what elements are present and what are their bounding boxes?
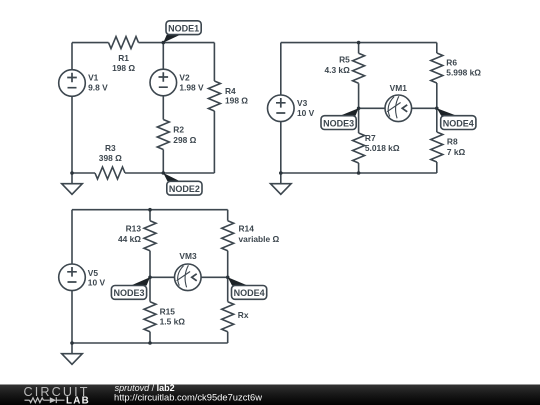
junction c2 top tee — [357, 41, 361, 45]
wire c1 top-right segment — [139, 42, 215, 44]
voltage source V3 — [268, 95, 315, 122]
wire c1 right column lower — [213, 111, 215, 173]
wire c3 bottom wire — [72, 342, 228, 344]
resistor Rx — [222, 302, 249, 332]
resistor R3 — [95, 143, 125, 179]
junction c3 node3 junction — [148, 276, 152, 280]
junction c3 top tee — [148, 208, 152, 212]
wire c1 right column upper — [213, 43, 215, 81]
svg-text:NODE4: NODE4 — [234, 288, 265, 298]
svg-text:10 V: 10 V — [297, 108, 315, 118]
resistor R7 — [353, 133, 400, 163]
wire c3 r13-r15 column middle — [149, 251, 151, 302]
wire c3 mid wire left — [150, 276, 175, 278]
wire c2 r8 column lower — [436, 162, 438, 173]
svg-text:http://circuitlab.com/ck95de7u: http://circuitlab.com/ck95de7uzct6w — [114, 392, 262, 403]
voltmeter VM1 — [385, 83, 412, 122]
wire c2 left column upper — [280, 43, 282, 95]
svg-text:398 Ω: 398 Ω — [99, 153, 122, 163]
node NODE2 flag — [163, 173, 202, 195]
resistor R15 — [144, 302, 185, 332]
junction c2 ground junction — [279, 171, 283, 175]
svg-text:298 Ω: 298 Ω — [173, 135, 196, 145]
junction c2 node4 junction — [435, 107, 439, 111]
resistor R5 — [324, 53, 364, 83]
svg-text:4.3 kΩ: 4.3 kΩ — [324, 65, 350, 75]
svg-text:NODE1: NODE1 — [168, 24, 199, 34]
resistor R4 — [208, 81, 248, 111]
svg-text:R1: R1 — [118, 53, 129, 63]
svg-text:R8: R8 — [447, 137, 458, 147]
wire c2 left column lower — [280, 122, 282, 173]
wire c2 r5-r7 column middle — [358, 83, 360, 133]
svg-text:NODE2: NODE2 — [169, 184, 200, 194]
svg-text:VM1: VM1 — [390, 83, 408, 93]
CircuitLab logo wordmark — [24, 385, 91, 405]
svg-text:1.5 kΩ: 1.5 kΩ — [160, 317, 186, 327]
wire c3 rx column lower — [227, 332, 229, 343]
junction c3 bottom tee — [148, 341, 152, 345]
wire c2 mid wire right — [412, 107, 437, 109]
wire c3 left column lower — [71, 291, 73, 343]
svg-text:NODE3: NODE3 — [323, 118, 354, 128]
resistor R8 — [431, 132, 466, 162]
wire c1 bottom-right segment — [125, 172, 214, 174]
footer title text — [114, 383, 262, 403]
voltage source V5 — [59, 264, 106, 291]
svg-text:198 Ω: 198 Ω — [112, 63, 135, 73]
svg-text:5.998 kΩ: 5.998 kΩ — [446, 67, 481, 77]
junction c2 node3 junction — [357, 107, 361, 111]
svg-text:NODE4: NODE4 — [443, 118, 474, 128]
svg-text:V5: V5 — [88, 268, 99, 278]
wire c2 top wire — [281, 42, 437, 44]
wire c3 r15 column lower — [149, 332, 151, 343]
wire c2 mid wire left — [359, 107, 385, 109]
svg-text:5.018 kΩ: 5.018 kΩ — [365, 143, 400, 153]
node NODE4 flag — [228, 277, 267, 299]
ground GND2 — [271, 173, 292, 194]
svg-text:10 V: 10 V — [88, 278, 106, 288]
wire c2 bottom wire — [281, 172, 437, 174]
node NODE4 flag — [437, 108, 476, 129]
wire c3 r14-rx column middle — [227, 251, 229, 302]
logo resistor-diode glyph — [25, 397, 65, 403]
svg-text:V1: V1 — [88, 73, 99, 83]
wire c2 r6 column upper — [436, 43, 438, 53]
wire c1 left column lower — [71, 96, 73, 173]
wire c1 mid column upper — [162, 43, 164, 70]
junction c1 node1 junction — [162, 41, 166, 45]
wire c1 left column upper — [71, 43, 73, 70]
svg-text:R14: R14 — [239, 224, 255, 234]
voltage source V2 — [150, 69, 204, 96]
junction c2 bottom tee — [357, 171, 361, 175]
svg-text:R2: R2 — [173, 125, 184, 135]
wire c1 mid column lower — [162, 150, 164, 174]
resistor R6 — [431, 53, 481, 83]
wire c3 r13 column upper — [149, 210, 151, 221]
svg-text:7 kΩ: 7 kΩ — [447, 147, 466, 157]
svg-text:9.8 V: 9.8 V — [88, 83, 108, 93]
junction c3 ground junction — [70, 341, 74, 345]
svg-text:R15: R15 — [160, 307, 176, 317]
svg-text:44 kΩ: 44 kΩ — [118, 234, 141, 244]
resistor R2 — [157, 120, 196, 150]
wire c3 top wire — [72, 209, 228, 211]
svg-text:R7: R7 — [365, 133, 376, 143]
wire c1 top-left segment — [72, 42, 109, 44]
svg-text:NODE3: NODE3 — [113, 288, 144, 298]
node NODE3 flag — [321, 108, 359, 129]
svg-text:VM3: VM3 — [179, 251, 197, 261]
node NODE3 flag — [111, 277, 150, 299]
svg-text:variable Ω: variable Ω — [239, 234, 280, 244]
ground GND1 — [62, 173, 83, 194]
resistor R1 — [109, 37, 139, 73]
svg-text:R5: R5 — [339, 55, 350, 65]
voltmeter VM3 — [175, 251, 202, 291]
svg-text:R3: R3 — [105, 143, 116, 153]
junction c1 node2 junction — [162, 171, 166, 175]
svg-text:Rx: Rx — [238, 310, 249, 320]
junction c1 ground junction — [70, 171, 74, 175]
resistor R14 — [222, 221, 280, 251]
wire c2 r7 column lower — [358, 163, 360, 173]
wire c3 mid wire right — [201, 276, 228, 278]
svg-text:V3: V3 — [297, 98, 308, 108]
svg-text:R13: R13 — [126, 224, 142, 234]
node NODE1 flag — [163, 21, 201, 43]
wire c2 r6-r8 column middle — [436, 83, 438, 132]
svg-text:LAB: LAB — [66, 395, 90, 405]
ground GND3 — [62, 343, 83, 364]
resistor R13 — [118, 221, 156, 251]
voltage source V1 — [59, 70, 108, 97]
svg-text:R6: R6 — [446, 58, 457, 68]
wire c1 bottom-left segment — [72, 172, 95, 174]
svg-text:198 Ω: 198 Ω — [225, 95, 248, 105]
wire c3 left column upper — [71, 210, 73, 264]
junction c3 node4 junction — [226, 276, 230, 280]
svg-text:V2: V2 — [179, 73, 190, 83]
svg-text:1.98 V: 1.98 V — [179, 83, 204, 93]
wire c1 mid column middle — [162, 96, 164, 120]
wire c2 r5 column upper — [358, 43, 360, 54]
wire c3 r14 column upper — [227, 210, 229, 221]
